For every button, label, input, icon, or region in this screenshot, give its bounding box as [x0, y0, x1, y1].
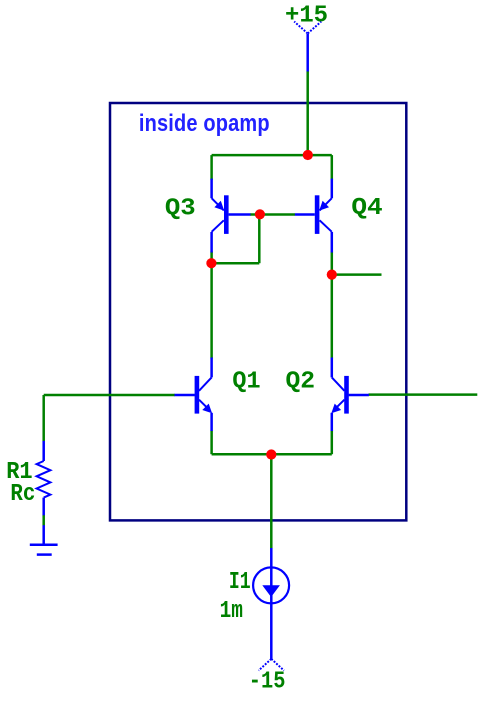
wire: +15 feed vertical	[306, 71, 309, 155]
Q4 base bar	[315, 195, 320, 234]
Q3 collector lead	[210, 232, 213, 253]
Q2 base bar	[344, 376, 349, 414]
Q3 base lead	[229, 213, 251, 216]
Q4 base lead	[295, 213, 315, 216]
transistor Q3 (PNP, diode-connected)	[212, 179, 251, 253]
resistor R1	[37, 441, 51, 515]
svg-text:Q4: Q4	[351, 195, 382, 222]
wire: Q3 collector down to Q1 collector	[210, 252, 213, 359]
I1 top lead through circle	[270, 548, 273, 659]
Q1 collector lead	[210, 358, 213, 378]
Q3 emitter arrow into bar	[214, 201, 224, 211]
power flag +15	[294, 22, 321, 72]
I1 arrow triangle	[262, 585, 280, 597]
wire: Q1 emitter drop	[210, 431, 213, 455]
transistor Q4 (PNP mirror)	[295, 179, 332, 253]
Q1 emitter lead	[210, 413, 213, 431]
Q2 collector lead	[331, 358, 334, 378]
node: Q4 collector junction	[327, 270, 337, 280]
svg-text:Q1: Q1	[232, 368, 260, 395]
R1 zigzag body	[37, 461, 51, 498]
svg-text:Q2: Q2	[286, 368, 316, 395]
svg-text:inside opamp: inside opamp	[139, 110, 270, 137]
svg-text:1m: 1m	[220, 598, 243, 625]
ground symbol	[30, 525, 58, 554]
Q3 collector diagonal	[212, 220, 224, 232]
node: top rail junction	[303, 150, 313, 160]
Q1 collector diagonal	[199, 377, 212, 390]
R1 top lead	[42, 441, 45, 461]
wire: Q4 collector down to Q2 collector	[331, 252, 334, 359]
wire: diode-connect horizontal to Q3 collector	[212, 262, 260, 265]
Q3 emitter diagonal	[212, 198, 224, 210]
Q2 emitter lead	[331, 413, 334, 431]
Q2 emitter diagonal	[335, 400, 344, 409]
Q1 emitter arrow	[202, 404, 212, 414]
Q4 emitter lead	[331, 179, 334, 199]
R1 bottom lead	[42, 498, 45, 516]
box: inside opamp boundary	[110, 103, 406, 520]
svg-text:+15: +15	[285, 3, 328, 30]
Q1 base bar	[195, 376, 200, 414]
ground bar short	[37, 553, 52, 556]
Q4 emitter diagonal	[320, 198, 332, 210]
wire: base rail between Q3 and Q4	[250, 213, 295, 216]
Q3 emitter lead	[210, 179, 213, 199]
node: Q3 collector junction	[206, 258, 216, 268]
wire: left input to Q1 base	[44, 394, 175, 397]
transistor Q2 (NPN right of diff pair)	[331, 358, 369, 432]
wire: right input from Q2 base	[369, 393, 478, 396]
ground bar long	[30, 543, 58, 546]
Q4 collector diagonal	[320, 220, 332, 232]
current source I1	[253, 548, 289, 659]
wire: output stub right from Q4 collector node	[332, 273, 382, 276]
Q4 collector lead	[331, 232, 334, 253]
Q2 base lead	[349, 394, 369, 397]
Q4 emitter arrow into bar	[319, 201, 329, 211]
svg-text:Q3: Q3	[165, 195, 196, 222]
power flag -15	[259, 659, 284, 671]
I1 circle	[253, 567, 289, 603]
wire: tail rail	[212, 453, 332, 456]
wire: Q2 emitter drop	[331, 431, 334, 455]
wire: diode-connect vertical from base node	[258, 215, 261, 264]
wire: tail down to current source I1	[270, 454, 273, 548]
wire: R1 bottom to ground	[42, 515, 45, 526]
Q2 emitter arrow	[331, 404, 341, 414]
node: base rail junction	[255, 209, 265, 219]
ground stem	[42, 525, 45, 545]
wire: left input drop to R1	[42, 395, 45, 442]
svg-text:Rc: Rc	[10, 481, 35, 508]
svg-text:I1: I1	[229, 569, 251, 596]
wire: left drop to Q3 emitter	[210, 155, 213, 180]
Q1 emitter diagonal	[199, 400, 208, 409]
wire: top rail Q3-Q4 emitters	[212, 154, 332, 157]
Q2 collector diagonal	[332, 377, 345, 390]
transistor Q1 (NPN left of diff pair)	[175, 358, 213, 432]
Q3 base bar	[224, 195, 229, 234]
node: tail junction	[266, 449, 276, 459]
Q1 base lead	[175, 394, 195, 397]
wire: right drop to Q4 emitter	[331, 155, 334, 180]
svg-text:-15: -15	[249, 669, 286, 696]
